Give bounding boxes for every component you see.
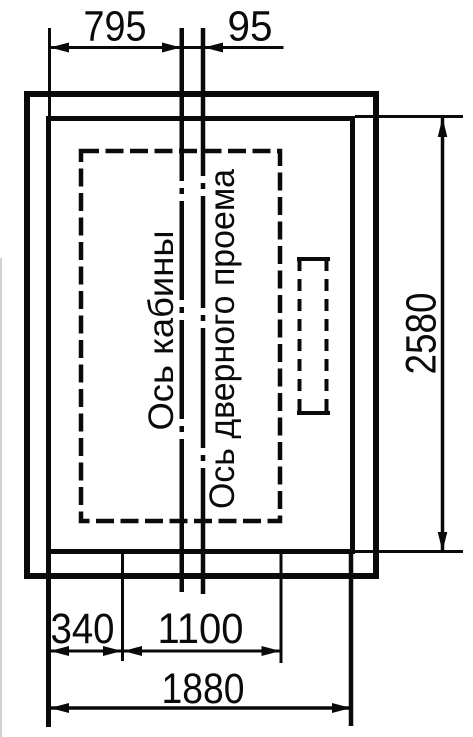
dimension 795: right arrow [162, 43, 181, 53]
svg-text:2580: 2580 [398, 293, 446, 375]
extension line bottom right [355, 550, 463, 553]
extension line right (below wall) [349, 554, 354, 726]
dimension 1100: left arrow [123, 646, 142, 656]
counterweight outline: top edge [297, 257, 330, 261]
dimension 2580: top arrow [438, 118, 448, 138]
svg-text:95: 95 [228, 3, 273, 51]
counterweight outline: bottom edge [297, 411, 330, 415]
dimension 1880: left arrow [50, 703, 69, 713]
svg-text:340: 340 [51, 605, 115, 653]
dimension 340: line [50, 650, 123, 653]
dimension 95: line [204, 46, 284, 49]
svg-text:Ось кабины: Ось кабины [142, 231, 181, 431]
inner shaft wall [49, 119, 353, 552]
svg-text:795: 795 [84, 3, 147, 51]
dimension 795: line [50, 46, 204, 49]
svg-text:1100: 1100 [158, 605, 244, 653]
extension line door left [121, 549, 124, 661]
svg-text:1880: 1880 [162, 665, 245, 713]
svg-text:Ось дверного проема: Ось дверного проема [203, 168, 242, 509]
axis line: door opening axis [201, 28, 206, 594]
axis line: cabin axis [180, 28, 185, 594]
counterweight outline: right side (dashed) [325, 259, 329, 413]
dimension 1880: right arrow [332, 703, 351, 713]
extension line door right [280, 549, 283, 663]
dimension 795: left arrow [50, 43, 69, 53]
dimension 1880: line [50, 706, 351, 710]
dimension 1100: line [123, 650, 281, 653]
dimension 2580: line [441, 118, 445, 551]
cabin outline (dashed) [81, 151, 280, 521]
extension line left (below wall) [46, 554, 51, 727]
counterweight outline: left side (dashed) [298, 259, 302, 413]
dimension 340: left arrow [50, 646, 69, 656]
extension line left (upper part) [48, 28, 51, 554]
outer shaft wall [27, 94, 376, 576]
dimension 2580: bottom arrow [438, 532, 448, 552]
dimension 340: right arrow [103, 646, 122, 656]
dimension 1100: right arrow [262, 646, 281, 656]
scan artifact left edge [0, 258, 2, 737]
dimension 95: arrow [204, 43, 223, 53]
extension line top right [355, 115, 463, 118]
